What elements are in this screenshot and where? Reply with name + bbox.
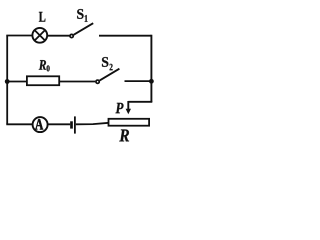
- label S2: [102, 57, 113, 70]
- node right junction: [149, 79, 154, 84]
- wire R0 to switch S2: [59, 81, 95, 83]
- label L: [39, 12, 45, 22]
- switch S1: [70, 23, 93, 37]
- wire jog to slider arrow: [128, 101, 152, 103]
- wire top-left horizontal to lamp: [6, 35, 32, 37]
- label R0: [39, 60, 50, 71]
- wire bottom-left horizontal to ammeter: [6, 123, 32, 125]
- lamp L: [32, 28, 47, 43]
- rheostat R: [109, 119, 150, 126]
- wire ammeter to battery: [48, 123, 70, 125]
- node left junction: [5, 79, 10, 84]
- switch S2: [96, 69, 119, 84]
- wire right vertical upper: [150, 35, 152, 102]
- wire S2 to right vertical: [125, 80, 152, 82]
- label P: [116, 103, 124, 113]
- wire S1 to top-right corner: [99, 35, 151, 37]
- wire left vertical: [6, 36, 8, 125]
- resistor R0: [27, 76, 59, 85]
- slider P arrow: [126, 101, 131, 114]
- wire middle-left horizontal: [6, 81, 27, 83]
- ammeter A: [33, 117, 48, 132]
- wire battery to rheostat: [76, 123, 109, 125]
- label R: [119, 129, 129, 141]
- wire lamp to switch S1: [47, 35, 69, 37]
- label S1: [77, 9, 87, 22]
- battery: [72, 116, 75, 133]
